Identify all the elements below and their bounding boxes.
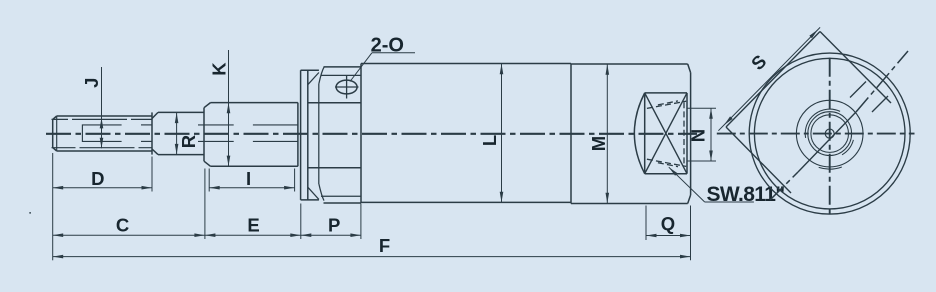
dimension J line <box>100 67 104 148</box>
svg-text:F: F <box>379 235 390 256</box>
socket hex hidden line bottom <box>647 159 686 166</box>
extension line Q right F right <box>690 206 692 261</box>
socket hex hidden line right <box>683 102 685 166</box>
extension line E-P boundary <box>300 204 302 240</box>
socket hex hidden line top short <box>658 101 678 105</box>
dimension E line <box>205 233 301 237</box>
diagonal solid through center <box>798 112 856 172</box>
large cylinder L outline <box>361 64 571 204</box>
svg-text:2-O: 2-O <box>371 35 404 57</box>
dimension C line <box>53 233 205 237</box>
end view circle r75.3 <box>754 58 905 209</box>
bore line top left <box>198 124 234 126</box>
socket hex hidden line top <box>647 101 686 108</box>
square silhouette top-left edge <box>726 32 820 128</box>
svg-text:D: D <box>91 168 104 189</box>
diagonal flat line upper left <box>850 82 866 98</box>
washer flange outline <box>301 70 319 200</box>
end view circle r33.3 <box>796 100 863 167</box>
threaded section outline <box>204 103 298 167</box>
svg-text:P: P <box>328 214 340 235</box>
socket recess outline with dome arc <box>634 93 687 174</box>
extension line left end <box>52 153 54 260</box>
label S <box>747 51 771 75</box>
end view partial arc r24.5 lower right <box>842 140 853 155</box>
svg-text:SW.811": SW.811" <box>707 183 785 206</box>
stud thread crest dashed bottom <box>52 147 153 149</box>
diagonal flat line lower right <box>872 96 888 112</box>
dimension P line <box>301 233 361 237</box>
svg-text:J: J <box>81 78 102 88</box>
diagonal dash-dot extension upper <box>856 51 908 112</box>
dimension S line <box>718 27 820 130</box>
centerline main axis <box>46 133 697 135</box>
dimension R line <box>175 113 179 155</box>
stud thread crest dashed top <box>52 118 153 120</box>
dimension K line <box>227 50 231 166</box>
extension line Q left <box>645 206 647 241</box>
label 2-O <box>371 35 404 57</box>
dimension L line <box>500 64 504 203</box>
extension line I right <box>294 169 296 192</box>
svg-text:M: M <box>588 136 609 151</box>
end view partial arc r35.5 bottom <box>819 167 842 169</box>
svg-text:R: R <box>178 135 199 148</box>
svg-text:I: I <box>246 168 251 189</box>
leader SW arrow <box>668 166 754 202</box>
dimension N extension bottom <box>687 160 716 162</box>
bore line bottom right <box>253 140 298 142</box>
dimension N extension top <box>687 107 716 109</box>
stud body outline <box>53 112 152 154</box>
dimension N line <box>709 108 713 161</box>
label Q <box>661 213 675 234</box>
stud inner slot right segment top <box>141 124 152 126</box>
speck <box>29 212 31 214</box>
dimension I line <box>209 186 294 190</box>
svg-text:C: C <box>116 214 129 235</box>
label P <box>328 214 340 235</box>
end view circle r18.8 <box>811 115 849 153</box>
extension line C-E boundary <box>204 169 206 240</box>
end view partial arc r24.5 upper left <box>805 109 840 138</box>
stud inner slot rectangle <box>82 125 121 141</box>
dimension Q line <box>646 234 691 238</box>
collar cylinder R outline <box>152 112 204 154</box>
end view vertical centerline <box>829 58 831 216</box>
label R <box>178 135 199 148</box>
bore line bottom left <box>198 140 234 142</box>
label F <box>379 235 390 256</box>
diagonal dash-dot extension lower <box>770 172 798 200</box>
label SW.811 <box>707 183 785 206</box>
svg-text:E: E <box>247 214 259 235</box>
label K <box>209 62 230 76</box>
svg-text:N: N <box>688 129 709 142</box>
dimension M line <box>606 64 610 203</box>
svg-text:K: K <box>209 62 230 76</box>
bore line top right <box>253 124 298 126</box>
stud inner slot right segment bottom <box>141 140 152 142</box>
dimension F line <box>53 255 691 259</box>
end view horizontal centerline <box>717 133 915 135</box>
extension line I left <box>208 169 210 192</box>
end view circle r4.5 <box>825 129 834 138</box>
square silhouette top-right edge <box>820 32 891 104</box>
leader 2-O <box>350 53 415 82</box>
label I <box>246 168 251 189</box>
hole 2-O crosshair symbol <box>335 75 359 98</box>
label N <box>688 129 709 142</box>
label C <box>116 214 129 235</box>
label E <box>247 214 259 235</box>
hex nut outline <box>308 67 361 203</box>
label M <box>588 136 609 151</box>
socket hex hidden line bottom short <box>658 163 678 167</box>
label L <box>479 135 500 146</box>
end view circle r21.9 <box>808 112 852 156</box>
cylinder M outline <box>571 64 691 204</box>
label D <box>91 168 104 189</box>
extension line stud right <box>151 157 153 192</box>
dimension D line <box>53 186 152 190</box>
end view circle r80.5 <box>749 53 910 214</box>
svg-text:Q: Q <box>661 213 675 234</box>
socket cross X <box>645 93 687 174</box>
square silhouette bottom-left edge <box>726 127 791 193</box>
svg-text:L: L <box>479 135 500 146</box>
extension line P right <box>360 204 362 240</box>
label J <box>81 78 102 88</box>
